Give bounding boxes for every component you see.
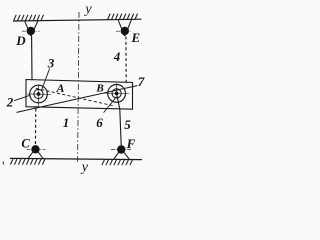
leader 6: [104, 97, 117, 113]
pulley D axis tick: [22, 30, 40, 32]
pulley C axis tick: [27, 148, 46, 150]
ground hatch left: [10, 159, 45, 165]
stray mark bottom-left: [2, 162, 5, 165]
leader 3: [42, 69, 50, 90]
svg-text:2: 2: [6, 95, 14, 110]
ground hatch right: [102, 160, 133, 166]
svg-text:6: 6: [96, 115, 103, 130]
svg-text:4: 4: [113, 49, 121, 64]
axis y (dash-dot vertical): [78, 12, 79, 164]
svg-text:y: y: [80, 160, 89, 175]
pulley F axis tick: [111, 149, 132, 151]
belt dashed run: [36, 88, 114, 106]
pulley D bracket: [25, 21, 38, 36]
svg-text:F: F: [126, 136, 136, 151]
pulley C: [31, 145, 39, 153]
wire rope bar to C (dashed): [34, 109, 36, 145]
pulley E bracket: [118, 20, 131, 36]
ceiling hatch left: [14, 15, 44, 21]
pulley F bracket: [114, 150, 129, 159]
ceiling line: [13, 19, 142, 21]
ceiling hatch right: [108, 14, 138, 20]
pulley A: [30, 85, 48, 103]
svg-text:B: B: [95, 83, 103, 95]
wire rope D to bar: [31, 36, 33, 80]
pulley B: [108, 85, 126, 103]
pulley A crosshair: [28, 93, 52, 95]
pulley E: [121, 27, 129, 35]
svg-text:1: 1: [63, 115, 70, 130]
wire rope B to F: [117, 96, 121, 146]
svg-text:E: E: [130, 30, 140, 45]
leader 2: [14, 95, 30, 100]
pulley F: [117, 145, 125, 153]
svg-text:7: 7: [138, 74, 145, 89]
pulley D: [27, 27, 35, 35]
pulley B crosshair: [104, 92, 130, 94]
bar (carriage rectangle): [26, 80, 133, 110]
svg-text:3: 3: [47, 55, 55, 70]
svg-text:C: C: [21, 136, 30, 150]
ground line: [10, 158, 142, 159]
wire rope E to bar (dashed): [125, 37, 127, 83]
svg-text:y: y: [83, 2, 92, 17]
pulley E axis tick: [116, 30, 132, 32]
svg-text:D: D: [15, 33, 26, 48]
pulley C bracket: [28, 150, 43, 159]
svg-text:5: 5: [124, 117, 131, 132]
svg-text:A: A: [55, 81, 64, 95]
belt solid run (thread over B, to label 7): [17, 86, 138, 113]
